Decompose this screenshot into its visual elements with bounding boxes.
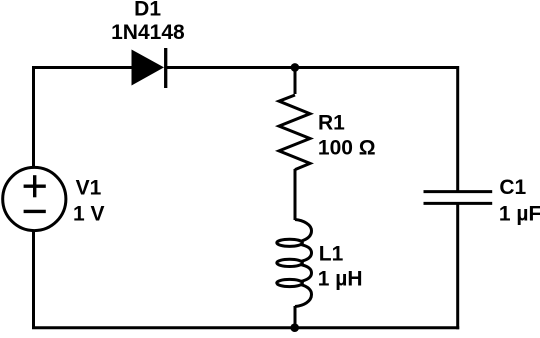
svg-text:D1: D1 (134, 0, 161, 20)
svg-text:1N4148: 1N4148 (111, 21, 185, 44)
capacitor C1 bottom plate (424, 202, 493, 205)
wire bottom rail (32, 326, 459, 329)
svg-text:R1: R1 (318, 112, 345, 135)
svg-text:C1: C1 (499, 176, 526, 199)
svg-text:1 V: 1 V (73, 202, 105, 225)
diode D1 triangle (anode) (132, 50, 165, 86)
capacitor C1 top plate (424, 190, 493, 193)
node junction dot bottom (ground net) (290, 323, 299, 332)
wire right from top corner down to C1 top plate (456, 66, 459, 192)
wire from R1 bottom to L1 top (294, 169, 297, 220)
wire from top node down to R1 (294, 68, 297, 95)
svg-text:V1: V1 (76, 177, 102, 200)
inductor L1 coil (295, 220, 312, 307)
wire top from V1 to diode anode (34, 66, 134, 69)
wire left from top corner down to V1 top (32, 66, 35, 167)
wire top from diode cathode to node at right corner (166, 66, 458, 69)
V1 plus sign (24, 184, 46, 187)
diode D1 cathode bar (164, 48, 167, 88)
svg-text:1 µF: 1 µF (499, 203, 540, 226)
resistor R1 zigzag (279, 95, 310, 170)
wire right from C1 bottom plate to bottom corner (456, 203, 459, 329)
svg-text:L1: L1 (319, 243, 344, 266)
wire from L1 bottom to bottom node (294, 306, 297, 328)
svg-text:1 µH: 1 µH (318, 267, 363, 290)
wire left from V1 bottom to bottom corner (32, 232, 35, 328)
node junction dot top (diode/R1/C1 net) (291, 63, 300, 72)
voltage source V1 circle (3, 167, 66, 230)
svg-text:100 Ω: 100 Ω (318, 137, 376, 160)
V1 minus sign (24, 210, 46, 213)
